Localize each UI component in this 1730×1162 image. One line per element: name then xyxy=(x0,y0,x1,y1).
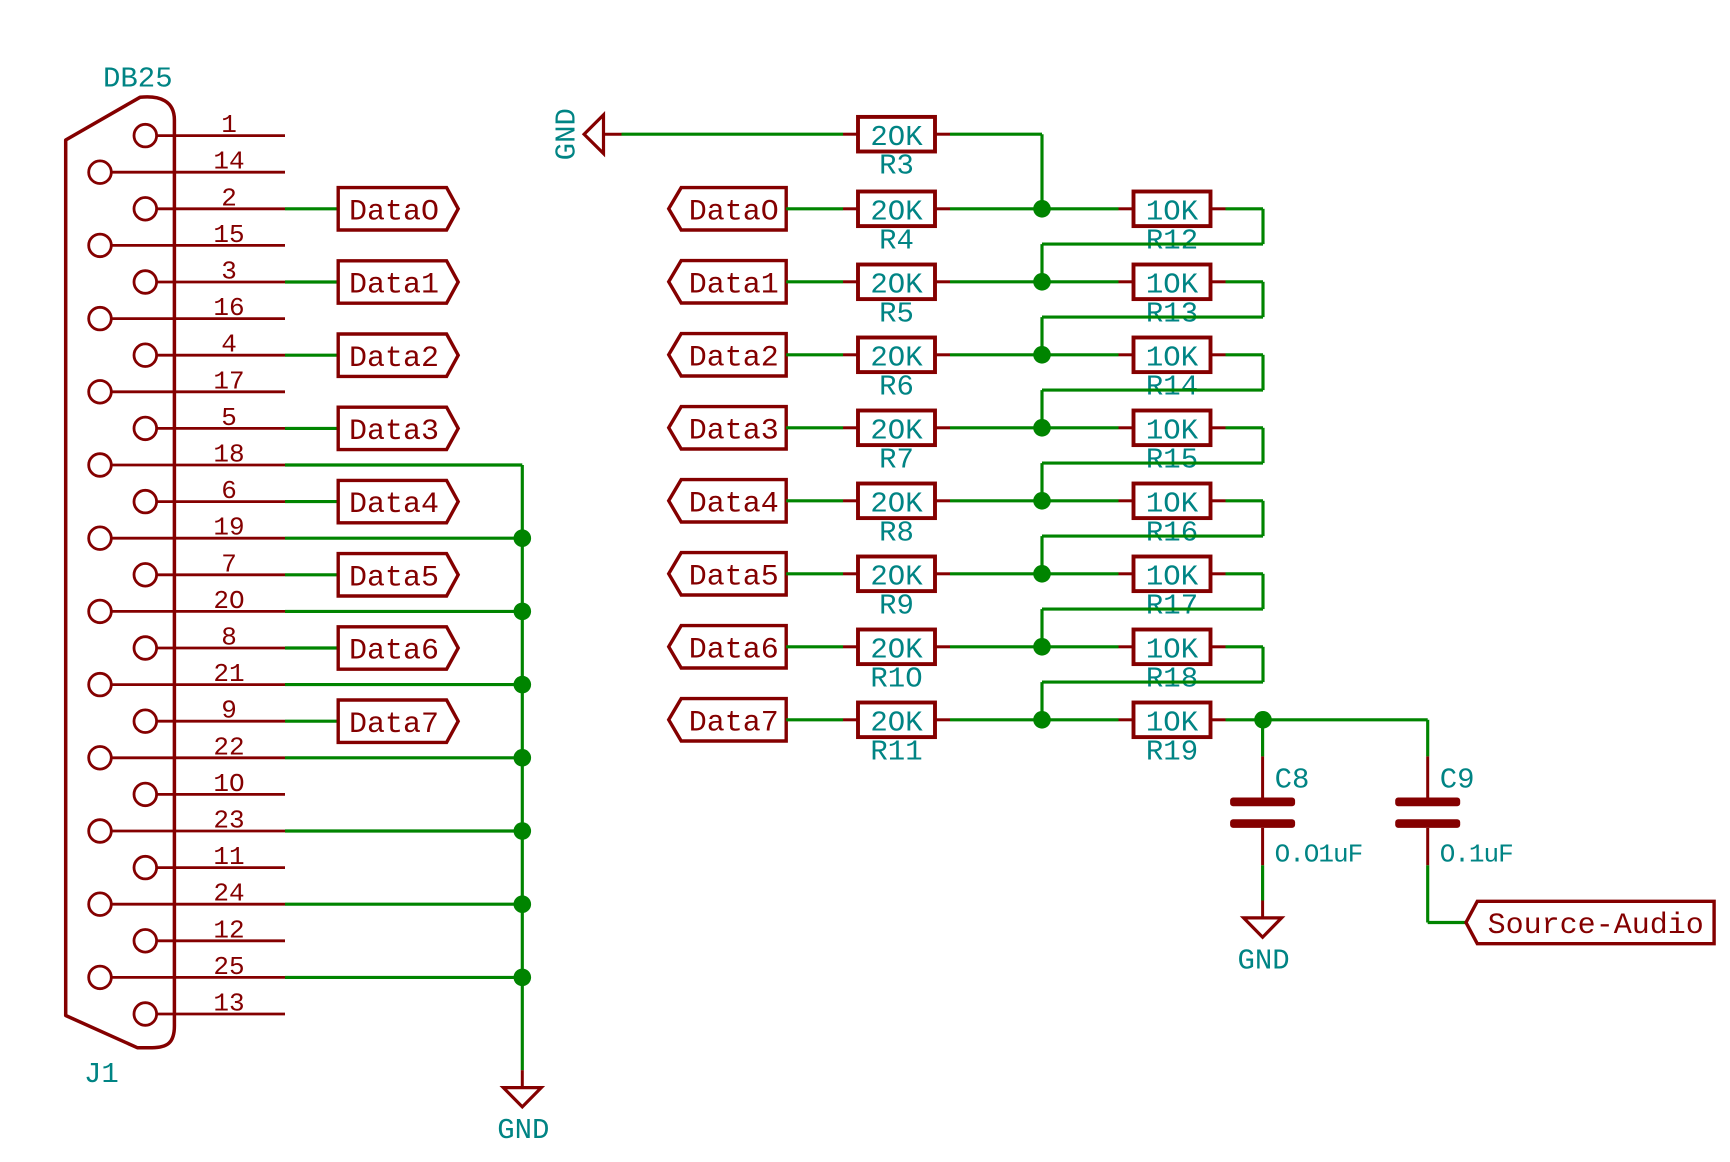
svg-text:1: 1 xyxy=(221,110,237,140)
svg-text:R16: R16 xyxy=(1146,516,1198,549)
svg-text:22: 22 xyxy=(213,732,244,762)
svg-text:Data2: Data2 xyxy=(349,342,439,376)
svg-text:Data2: Data2 xyxy=(689,341,779,375)
svg-text:25: 25 xyxy=(213,952,244,982)
svg-text:Data6: Data6 xyxy=(689,633,779,667)
svg-text:12: 12 xyxy=(213,915,244,945)
svg-text:1O: 1O xyxy=(213,769,244,799)
svg-text:R11: R11 xyxy=(870,735,922,768)
svg-text:R7: R7 xyxy=(879,443,914,476)
svg-text:R9: R9 xyxy=(879,589,914,622)
svg-text:R12: R12 xyxy=(1146,224,1198,257)
svg-text:Data1: Data1 xyxy=(689,268,779,302)
svg-text:Data6: Data6 xyxy=(349,635,439,669)
svg-text:GND: GND xyxy=(497,1114,549,1147)
svg-text:Data5: Data5 xyxy=(349,561,439,595)
svg-text:C9: C9 xyxy=(1440,763,1475,796)
svg-text:Data1: Data1 xyxy=(349,269,439,303)
svg-text:R4: R4 xyxy=(879,224,914,257)
svg-text:4: 4 xyxy=(221,330,237,360)
svg-text:O.O1uF: O.O1uF xyxy=(1275,840,1363,870)
svg-text:24: 24 xyxy=(213,879,244,909)
svg-text:R5: R5 xyxy=(879,297,914,330)
svg-text:14: 14 xyxy=(213,147,244,177)
svg-text:Data4: Data4 xyxy=(349,488,439,522)
svg-text:R19: R19 xyxy=(1146,735,1198,768)
svg-text:15: 15 xyxy=(213,220,244,250)
svg-text:23: 23 xyxy=(213,806,244,836)
svg-text:17: 17 xyxy=(213,366,244,396)
svg-text:Data3: Data3 xyxy=(689,414,779,448)
svg-text:13: 13 xyxy=(213,989,244,1019)
svg-text:R18: R18 xyxy=(1146,662,1198,695)
svg-text:16: 16 xyxy=(213,293,244,323)
svg-text:21: 21 xyxy=(213,659,244,689)
svg-text:R6: R6 xyxy=(879,370,914,403)
svg-text:R3: R3 xyxy=(879,150,914,183)
svg-text:2O: 2O xyxy=(213,586,244,616)
svg-text:GND: GND xyxy=(550,108,583,160)
svg-text:R15: R15 xyxy=(1146,443,1198,476)
svg-text:7: 7 xyxy=(221,549,237,579)
svg-text:Data7: Data7 xyxy=(349,708,439,742)
svg-text:19: 19 xyxy=(213,513,244,543)
svg-text:C8: C8 xyxy=(1275,763,1310,796)
svg-text:9: 9 xyxy=(221,696,237,726)
svg-text:Data3: Data3 xyxy=(349,415,439,449)
svg-text:R14: R14 xyxy=(1146,370,1198,403)
svg-text:18: 18 xyxy=(213,440,244,470)
svg-text:6: 6 xyxy=(221,476,237,506)
svg-text:Data4: Data4 xyxy=(689,487,779,521)
svg-text:DataO: DataO xyxy=(349,195,439,229)
svg-text:R13: R13 xyxy=(1146,297,1198,330)
svg-text:3: 3 xyxy=(221,257,237,287)
svg-text:Data5: Data5 xyxy=(689,560,779,594)
svg-text:2: 2 xyxy=(221,183,237,213)
svg-text:5: 5 xyxy=(221,403,237,433)
svg-text:R1O: R1O xyxy=(870,662,922,695)
svg-text:DB25: DB25 xyxy=(103,63,173,96)
svg-text:R17: R17 xyxy=(1146,589,1198,622)
svg-text:R8: R8 xyxy=(879,516,914,549)
svg-text:O.1uF: O.1uF xyxy=(1440,840,1513,870)
svg-text:Source-Audio: Source-Audio xyxy=(1488,909,1704,943)
svg-text:Data7: Data7 xyxy=(689,706,779,740)
svg-text:DataO: DataO xyxy=(689,195,779,229)
svg-text:8: 8 xyxy=(221,623,237,653)
svg-text:11: 11 xyxy=(213,842,244,872)
svg-text:J1: J1 xyxy=(84,1058,119,1091)
svg-text:GND: GND xyxy=(1237,944,1289,977)
